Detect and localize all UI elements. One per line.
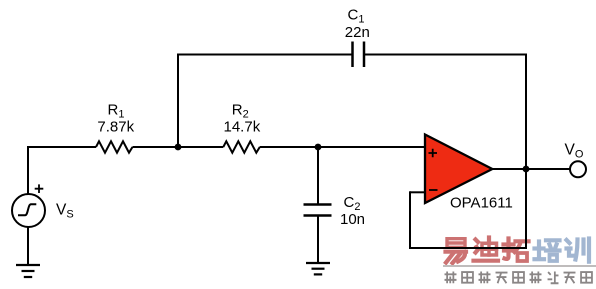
wire op-amp minus input — [410, 191, 425, 193]
watermark char xun — [567, 239, 590, 262]
watermark char tuo — [504, 239, 529, 262]
svg-text:OPA1611: OPA1611 — [450, 195, 513, 212]
wire right vertical from top to output node and feedback bottom — [525, 54, 527, 249]
watermark char yi — [446, 239, 467, 263]
resistor R1 — [96, 141, 133, 152]
wire: main horizontal net from source to op-amp +, with resistor gaps — [27, 54, 570, 265]
svg-text:22n: 22n — [345, 24, 370, 41]
wire source to R1 — [27, 146, 96, 148]
svg-text:C1: C1 — [348, 7, 365, 26]
node junction at C2 tap — [315, 144, 322, 151]
voltage source VS — [12, 194, 45, 227]
ground below C2 — [306, 263, 330, 274]
svg-text:10n: 10n — [340, 211, 365, 228]
voltage source plus sign — [35, 184, 44, 193]
svg-text:VO: VO — [565, 142, 584, 161]
wire top feedback right segment from C1 — [364, 54, 526, 56]
wire output to terminal — [492, 168, 570, 170]
wire R2 to op-amp + input — [260, 146, 425, 148]
watermark logo big text — [446, 238, 590, 264]
wire top feedback left segment to C1 — [177, 54, 353, 56]
wire C2 vertical top — [317, 147, 319, 205]
wire feedback left vertical — [177, 55, 179, 148]
svg-text:VS: VS — [56, 202, 74, 221]
op-amp U1 OPA1611 — [425, 135, 492, 204]
svg-text:7.87k: 7.87k — [97, 119, 134, 136]
node junction at output — [523, 166, 530, 173]
svg-text:14.7k: 14.7k — [224, 119, 261, 136]
capacitor C1 — [353, 42, 365, 68]
watermark slogan small text — [445, 271, 592, 283]
output terminal VO — [570, 161, 586, 177]
wire source to ground — [27, 227, 29, 264]
op-amp plus input marking — [429, 149, 438, 157]
watermark underline bar — [443, 265, 596, 267]
capacitor C2 — [304, 205, 332, 216]
wire feedback loop bottom — [409, 247, 527, 249]
wire feedback loop left down — [409, 191, 411, 248]
wire source vertical up — [27, 147, 29, 194]
wire C2 vertical bottom to ground — [317, 216, 319, 264]
node junction at feedback tap — [175, 144, 182, 151]
wire R1 to R2 — [133, 146, 224, 148]
ground below source — [16, 265, 40, 277]
op-amp minus input marking — [429, 189, 438, 191]
watermark char pei — [535, 240, 560, 261]
resistor R2 — [223, 141, 259, 152]
watermark char di — [474, 238, 499, 261]
